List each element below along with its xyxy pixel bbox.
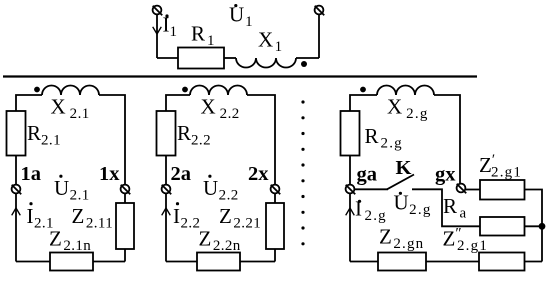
terminal primary right — [315, 6, 325, 16]
wire Z'2.g1 to right rail — [525, 190, 543, 262]
wire loop1 right mid — [124, 194, 126, 204]
resistor R1 — [178, 48, 224, 69]
dot polarity loopg — [360, 87, 366, 93]
svg-text:gx: gx — [435, 164, 456, 186]
arrow I2.2 — [162, 208, 171, 215]
impedance Z2.1n — [50, 253, 93, 271]
wire Z2.gn to Z''2.g1 — [426, 261, 479, 263]
svg-text:K: K — [396, 157, 412, 179]
impedance Z2.11 — [116, 203, 134, 249]
wire loop2 top left — [166, 95, 190, 111]
wire loopg top right — [434, 95, 460, 184]
wire loop1 left bottom — [15, 194, 17, 262]
wire loop2 right bottom — [274, 249, 276, 262]
wire gx to Z'2.g1 — [466, 189, 481, 191]
arrow I1 — [153, 27, 162, 34]
wire loop2 bottom right — [240, 261, 275, 263]
inductor X2.2 — [190, 86, 247, 96]
svg-text:2a: 2a — [171, 163, 192, 185]
terminal 2x — [271, 185, 281, 195]
svg-text:1x: 1x — [99, 163, 120, 185]
wire Ra to junction — [525, 225, 543, 227]
resistor R2.2 — [157, 111, 176, 156]
wire loop1 left mid — [15, 156, 17, 185]
svg-text:1a: 1a — [21, 163, 42, 185]
terminal 1x — [121, 185, 131, 195]
wire loop1 top left — [16, 95, 42, 111]
wire loop2 top right — [247, 95, 275, 185]
impedance Z2.gn — [378, 253, 426, 271]
resistor Ra — [480, 217, 525, 236]
wire switch left — [355, 188, 389, 190]
wire loop1 right bottom — [124, 249, 126, 262]
terminal ga — [346, 185, 356, 195]
dot polarity primary — [301, 61, 307, 67]
core separator line — [3, 75, 477, 77]
inductor X2.1 — [42, 86, 99, 96]
wire primary left horizontal — [157, 57, 178, 59]
svg-text:ga: ga — [357, 164, 378, 186]
wire loopg left mid — [349, 156, 351, 185]
wire loop2 left bottom — [165, 194, 167, 262]
impedance Z2.21 — [266, 203, 284, 249]
wire loop1 bottom right — [93, 261, 125, 263]
dot polarity loop2 — [182, 87, 188, 93]
wire loop2 bottom left — [166, 261, 197, 263]
wire R1 to X1 — [224, 57, 236, 59]
terminal gx — [457, 184, 467, 194]
switch K blade — [387, 175, 414, 190]
resistor R2.1 — [7, 111, 26, 156]
wire loop1 top right — [99, 95, 125, 185]
inductor X2.g — [377, 86, 434, 96]
svg-text:2x: 2x — [248, 163, 269, 185]
wire X1 to right — [296, 57, 319, 59]
wire loop2 right mid — [274, 194, 276, 204]
wire primary left vertical — [156, 15, 158, 59]
impedance Z2.2n — [197, 253, 240, 271]
impedance Z'2.g1 — [480, 180, 525, 200]
terminal 1a — [12, 185, 22, 195]
ellipsis dots column — [301, 100, 304, 245]
arrow I2.1 — [12, 208, 21, 215]
dot polarity loop1 — [34, 87, 40, 93]
resistor R2.g — [341, 111, 360, 156]
impedance Z''2.g1 — [479, 253, 525, 271]
wire loopg left bottom — [349, 194, 351, 262]
wire switch right to Ra — [412, 189, 480, 226]
wire loopg top left — [350, 95, 377, 111]
terminal primary left — [153, 6, 163, 16]
wire loop1 bottom left — [16, 261, 50, 263]
terminal 2a — [162, 185, 172, 195]
arrow I2.g — [346, 208, 355, 215]
inductor X1 — [236, 58, 296, 68]
wire primary right vertical — [318, 15, 320, 59]
junction node — [539, 223, 546, 230]
wire Z''2.g1 to right rail — [525, 261, 543, 263]
wire loopg bottom left — [350, 261, 378, 263]
wire loop2 left mid — [165, 156, 167, 185]
